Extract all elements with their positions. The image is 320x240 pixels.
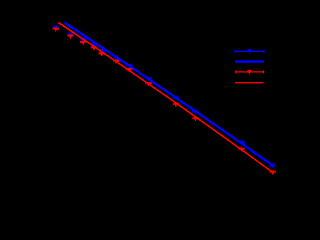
red fit line (thin power-law fit) xyxy=(58,23,272,173)
blue data series: triangle-down markers xyxy=(54,25,275,168)
blue fit line (thick power-law fit) xyxy=(64,22,272,165)
legend entry 1 marker xyxy=(248,49,252,54)
blue data series: x-errorbars xyxy=(53,26,275,166)
legend entry 3: red errorbar sample xyxy=(236,70,264,73)
legend entry 3 marker xyxy=(247,70,251,75)
red data series: triangle-down markers xyxy=(54,27,276,175)
legend entry 1: blue errorbar sample xyxy=(235,50,264,53)
legend entry 2: blue thick fit line sample xyxy=(235,60,264,62)
red data series: x-errorbars xyxy=(53,28,275,173)
legend entry 4: red thin fit line sample xyxy=(235,82,264,84)
